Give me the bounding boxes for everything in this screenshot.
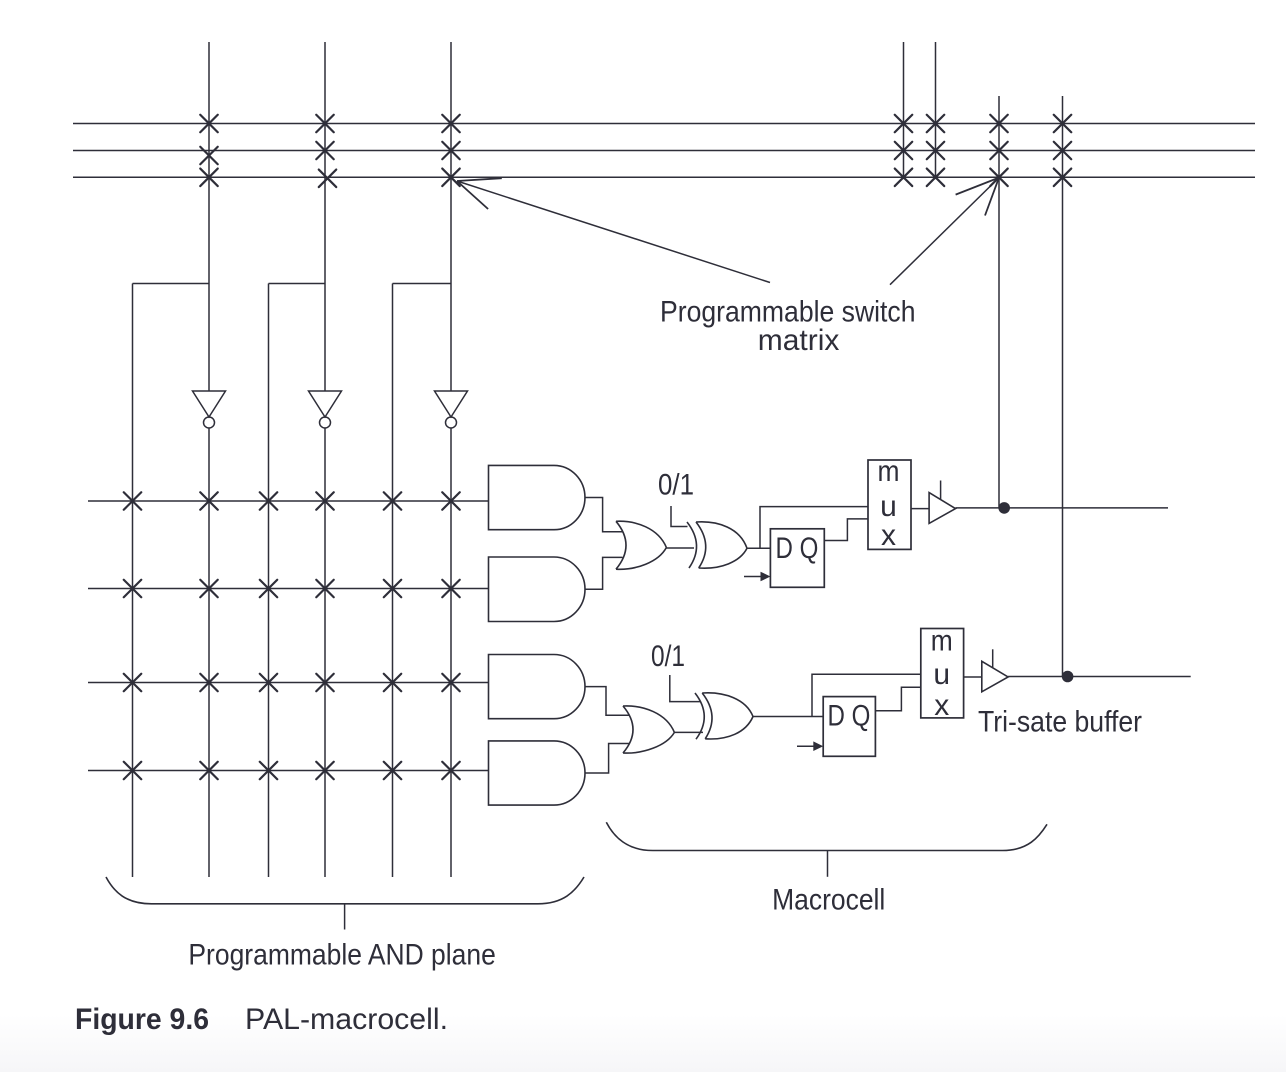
svg-text:D Q: D Q (828, 700, 871, 733)
svg-text:Tri-sate buffer: Tri-sate buffer (978, 706, 1142, 739)
svg-text:m: m (931, 624, 953, 657)
svg-text:D Q: D Q (776, 532, 819, 565)
svg-text:x: x (934, 689, 949, 722)
svg-text:Programmable AND plane: Programmable AND plane (188, 939, 495, 972)
svg-text:PAL-macrocell.: PAL-macrocell. (245, 1003, 448, 1036)
svg-text:m: m (878, 455, 900, 488)
svg-text:matrix: matrix (758, 324, 840, 357)
svg-text:Figure 9.6: Figure 9.6 (75, 1003, 209, 1036)
svg-text:u: u (933, 658, 950, 691)
svg-text:x: x (881, 519, 896, 552)
svg-text:0/1: 0/1 (651, 640, 685, 673)
svg-text:0/1: 0/1 (658, 469, 694, 502)
svg-text:Macrocell: Macrocell (772, 884, 885, 917)
